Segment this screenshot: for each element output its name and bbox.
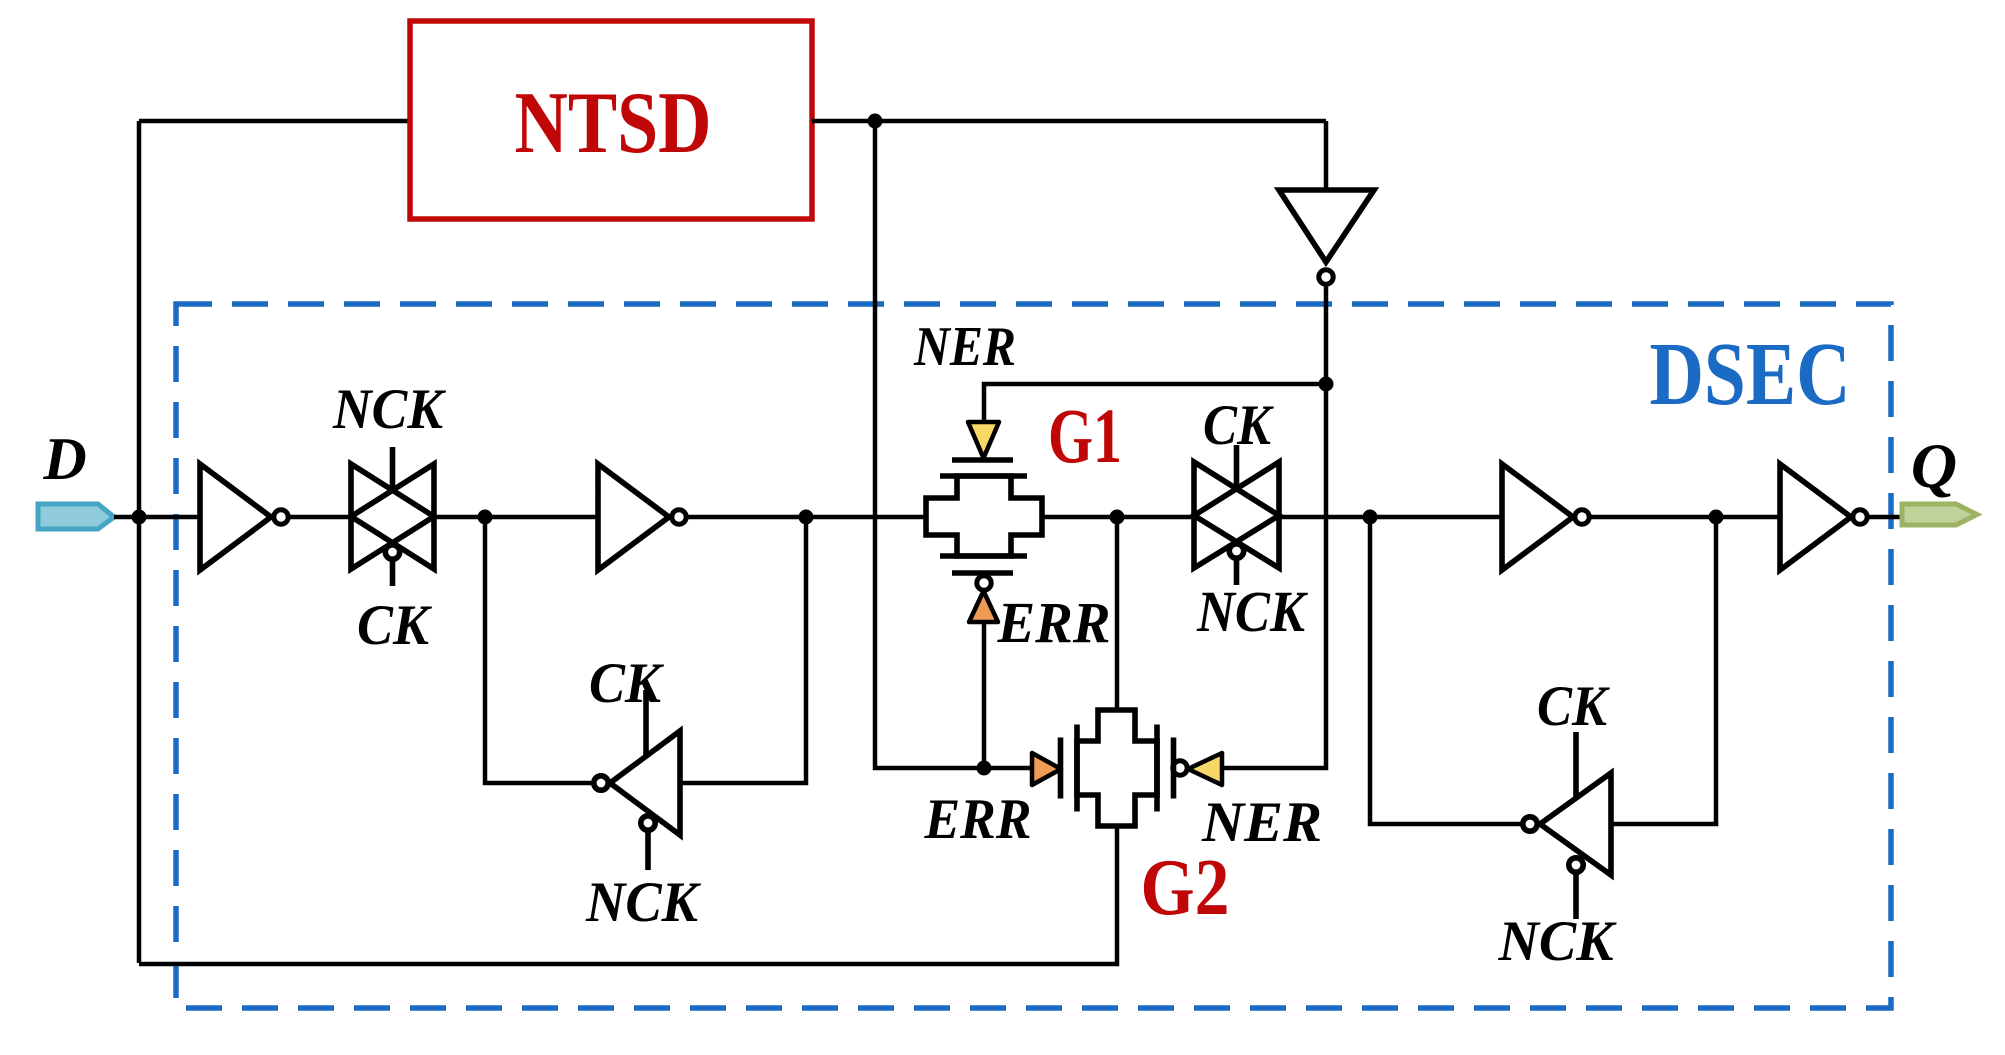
svg-text:D: D: [42, 426, 86, 492]
wire: NTSD input horizontal: [139, 119, 410, 124]
wire: U6 input from latch node: [680, 517, 806, 783]
node: master latch node: [478, 510, 493, 525]
G1 bottom gate ERR arrow: [969, 591, 998, 622]
G2 right gate bubble: [1173, 761, 1187, 775]
wire: left latch feedback down: [485, 517, 593, 783]
inverter U2: [598, 464, 669, 570]
svg-text:DSEC: DSEC: [1650, 325, 1851, 424]
node: ERR junction: [977, 761, 992, 776]
wire: ERR vertical from G1 gate: [982, 623, 987, 768]
wire: U2 out to G1: [687, 515, 926, 520]
node: D junction: [132, 510, 147, 525]
svg-text:CK: CK: [357, 594, 433, 657]
wire: U3 out to U4: [1590, 515, 1780, 520]
transmission gate TG1: [351, 447, 434, 586]
inverter U1: [200, 464, 271, 570]
svg-text:NTSD: NTSD: [515, 75, 712, 172]
svg-text:CK: CK: [1203, 394, 1275, 457]
svg-text:ERR: ERR: [997, 590, 1111, 655]
pass gate G1: [926, 460, 1042, 573]
wire: TG2 to inverter U3: [1279, 515, 1502, 520]
wire: TG1 to inverter U2: [434, 515, 598, 520]
wire: G1 out to TG2: [1042, 515, 1194, 520]
pass gate G2: [1061, 710, 1174, 826]
svg-text:ERR: ERR: [924, 788, 1032, 851]
G1 bottom gate bubble: [977, 576, 991, 590]
svg-text:NCK: NCK: [332, 378, 447, 441]
wire: U1 out to TG1: [289, 515, 351, 520]
tristate inverter U6 (left latch keeper, points left): [594, 690, 680, 870]
node: output latch node: [1709, 510, 1724, 525]
wire: NER vertical down to G2 right gate: [1222, 285, 1326, 768]
output Q port arrow: [1902, 504, 1977, 525]
svg-text:CK: CK: [1537, 675, 1611, 738]
G1 top gate NER arrow: [968, 422, 999, 458]
node: NTSD output junction: [868, 114, 883, 129]
node: feedback join: [799, 510, 814, 525]
wire: D to inverter U1: [114, 515, 200, 520]
inverter U4: [1780, 464, 1851, 570]
inverter U5 (points down, NER generator): [1279, 190, 1374, 262]
svg-text:Q: Q: [1911, 430, 1957, 501]
inverter U3: [1502, 464, 1573, 570]
NTSD block: [410, 21, 812, 219]
transmission gate TG2: [1194, 445, 1279, 585]
svg-text:NCK: NCK: [585, 871, 702, 934]
DSEC dashed boundary box: [176, 304, 1891, 1008]
svg-text:CK: CK: [589, 652, 665, 715]
svg-text:G2: G2: [1141, 844, 1230, 932]
wire: NER branch to G1 top gate: [984, 384, 1326, 424]
tristate inverter U7 (right latch keeper, points left): [1523, 732, 1611, 919]
wire: into top inverter: [1324, 121, 1329, 190]
node: NER branch junction: [1319, 377, 1334, 392]
wire: D node vertical (to NTSD input, down to bottom feedback): [137, 121, 142, 963]
wire: G2 top terminal: [1115, 517, 1120, 710]
svg-text:NER: NER: [913, 316, 1016, 378]
wire: G2 bottom terminal to bottom feedback rail: [139, 826, 1117, 964]
wire: U4 out to Q: [1868, 515, 1903, 520]
node: slave feedback junction: [1363, 510, 1378, 525]
wire: NTSD output horizontal: [812, 119, 1326, 124]
G2 left gate ERR arrow: [1032, 753, 1061, 785]
G2 right gate NER arrow: [1188, 753, 1222, 785]
node: slave latch input node: [1110, 510, 1125, 525]
wire: NTSD output branch down (ERR gating line): [875, 121, 1033, 768]
svg-text:G1: G1: [1048, 392, 1122, 479]
svg-text:NCK: NCK: [1196, 579, 1308, 644]
wire: right latch feedback down: [1370, 517, 1522, 824]
wire: U7 input from output node: [1611, 517, 1716, 824]
input D port arrow: [38, 504, 114, 529]
svg-text:NCK: NCK: [1498, 910, 1618, 973]
